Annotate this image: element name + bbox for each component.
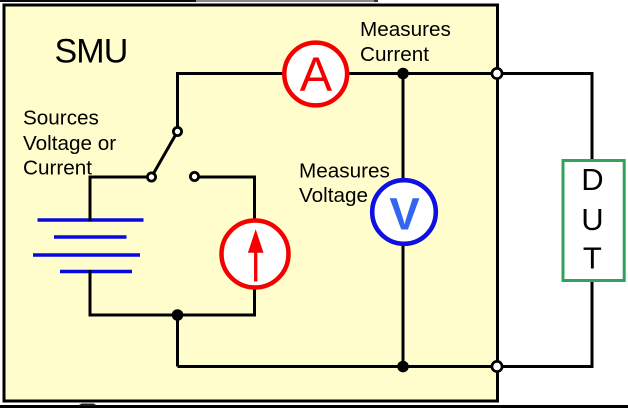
svg-text:T: T [583, 240, 602, 275]
svg-text:A: A [300, 48, 333, 102]
svg-text:D: D [581, 162, 603, 197]
svg-text:Voltage: Voltage [299, 184, 368, 207]
svg-text:Voltage or: Voltage or [23, 132, 116, 155]
svg-text:Current: Current [23, 156, 92, 179]
svg-text:Measures: Measures [299, 159, 390, 182]
svg-text:Measures: Measures [360, 18, 451, 41]
svg-text:U: U [581, 202, 603, 237]
svg-text:SMU: SMU [55, 32, 128, 70]
svg-text:V: V [389, 189, 420, 240]
svg-text:Current: Current [360, 43, 429, 66]
svg-text:Sources: Sources [23, 106, 99, 129]
